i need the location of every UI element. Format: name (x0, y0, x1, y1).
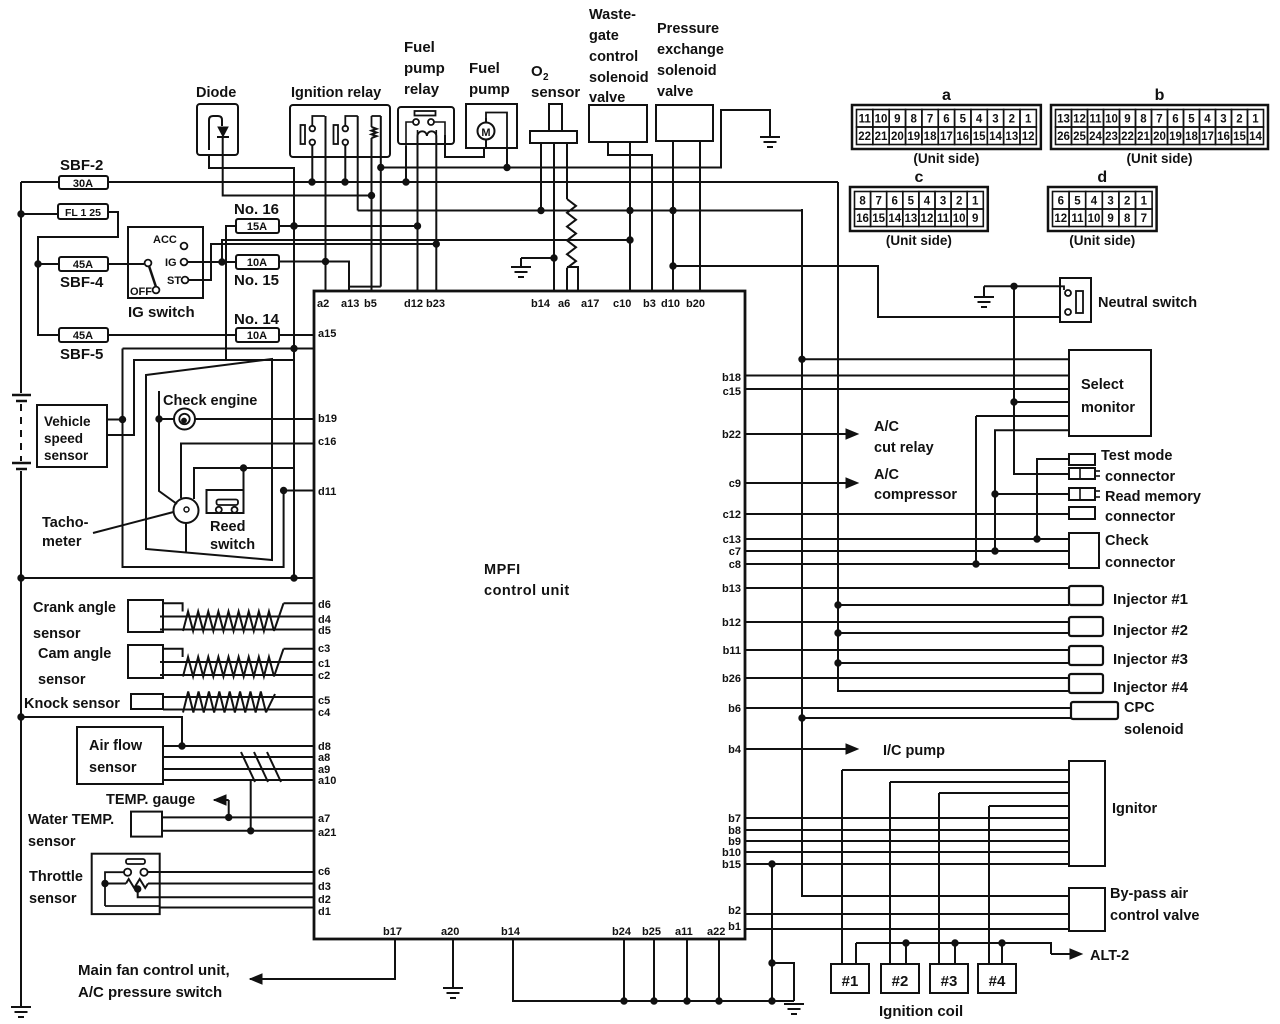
svg-text:3: 3 (1220, 114, 1226, 126)
svg-text:#1: #1 (842, 973, 859, 990)
svg-text:c1: c1 (318, 658, 330, 670)
svg-text:Ignition coil: Ignition coil (879, 1003, 963, 1020)
svg-text:MPFI: MPFI (484, 562, 521, 578)
svg-text:b4: b4 (728, 744, 742, 756)
svg-text:c8: c8 (729, 559, 741, 571)
svg-text:b18: b18 (722, 372, 741, 384)
svg-text:Pressure: Pressure (657, 21, 719, 37)
svg-text:13: 13 (1057, 114, 1070, 126)
svg-text:5: 5 (908, 196, 915, 208)
svg-text:No. 16: No. 16 (234, 201, 279, 218)
svg-text:2: 2 (1124, 196, 1130, 208)
svg-text:b12: b12 (722, 617, 741, 629)
svg-text:Diode: Diode (196, 85, 236, 101)
svg-text:18: 18 (1185, 131, 1198, 143)
svg-text:A/C: A/C (874, 419, 900, 435)
svg-text:a17: a17 (581, 298, 599, 310)
svg-text:d6: d6 (318, 599, 331, 611)
svg-text:sensor: sensor (89, 760, 137, 776)
svg-text:12: 12 (1054, 213, 1067, 225)
svg-text:10A: 10A (247, 257, 267, 269)
svg-text:17: 17 (1201, 131, 1214, 143)
svg-text:A/C pressure switch: A/C pressure switch (78, 984, 222, 1001)
svg-text:a22: a22 (707, 926, 725, 938)
svg-text:c: c (914, 169, 923, 186)
svg-text:b25: b25 (642, 926, 661, 938)
svg-text:11: 11 (1071, 213, 1084, 225)
svg-text:Vehicle: Vehicle (44, 414, 91, 429)
svg-text:12: 12 (1073, 114, 1086, 126)
svg-text:b14: b14 (531, 298, 551, 310)
svg-text:SBF-5: SBF-5 (60, 346, 103, 363)
svg-text:control valve: control valve (1110, 908, 1199, 924)
svg-text:b23: b23 (426, 298, 445, 310)
svg-text:b24: b24 (612, 926, 632, 938)
svg-text:ST: ST (167, 275, 181, 287)
svg-text:b: b (1155, 87, 1165, 104)
svg-text:b14: b14 (501, 926, 521, 938)
svg-text:a2: a2 (317, 298, 329, 310)
svg-text:c3: c3 (318, 643, 330, 655)
svg-text:TEMP. gauge: TEMP. gauge (106, 792, 195, 808)
svg-text:c6: c6 (318, 866, 330, 878)
svg-text:15A: 15A (247, 221, 267, 233)
svg-text:#3: #3 (941, 973, 958, 990)
svg-text:connector: connector (1105, 555, 1175, 571)
svg-text:(Unit side): (Unit side) (913, 151, 979, 166)
svg-text:24: 24 (1089, 131, 1102, 143)
svg-text:sensor: sensor (28, 834, 76, 850)
svg-text:1: 1 (1025, 114, 1032, 126)
svg-text:5: 5 (960, 114, 967, 126)
svg-text:c13: c13 (723, 534, 741, 546)
svg-text:d3: d3 (318, 881, 331, 893)
svg-text:7: 7 (1156, 114, 1162, 126)
svg-text:15: 15 (1233, 131, 1246, 143)
svg-text:c4: c4 (318, 707, 331, 719)
svg-text:3: 3 (1107, 196, 1113, 208)
svg-text:Ignitor: Ignitor (1112, 801, 1157, 817)
svg-text:b1: b1 (728, 921, 741, 933)
svg-text:b10: b10 (722, 847, 741, 859)
svg-text:9: 9 (894, 114, 900, 126)
svg-text:(Unit side): (Unit side) (1127, 151, 1193, 166)
svg-text:a15: a15 (318, 328, 336, 340)
svg-text:b20: b20 (686, 298, 705, 310)
svg-text:17: 17 (940, 131, 953, 143)
svg-text:switch: switch (210, 537, 255, 553)
svg-text:c2: c2 (318, 670, 330, 682)
svg-text:d1: d1 (318, 906, 331, 918)
svg-text:10: 10 (1088, 213, 1101, 225)
svg-text:b22: b22 (722, 429, 741, 441)
svg-text:8: 8 (911, 114, 918, 126)
svg-text:d11: d11 (318, 486, 336, 498)
svg-text:10A: 10A (247, 330, 267, 342)
svg-text:valve: valve (589, 90, 625, 106)
svg-text:b15: b15 (722, 859, 741, 871)
svg-text:Main fan control unit,: Main fan control unit, (78, 962, 230, 979)
svg-text:#2: #2 (892, 973, 909, 990)
svg-text:Throttle: Throttle (29, 869, 83, 885)
svg-text:9: 9 (1107, 213, 1113, 225)
svg-text:solenoid: solenoid (657, 63, 717, 79)
svg-text:CPC: CPC (1124, 700, 1155, 716)
svg-text:b6: b6 (728, 703, 741, 715)
svg-text:Select: Select (1081, 377, 1124, 393)
svg-text:c9: c9 (729, 478, 741, 490)
svg-text:6: 6 (1172, 114, 1178, 126)
svg-text:Fuel: Fuel (404, 39, 435, 56)
svg-text:a7: a7 (318, 813, 330, 825)
svg-text:14: 14 (989, 131, 1002, 143)
svg-text:connector: connector (1105, 469, 1175, 485)
svg-text:21: 21 (1137, 131, 1150, 143)
svg-text:5: 5 (1074, 196, 1081, 208)
svg-text:pump: pump (404, 60, 445, 77)
svg-text:8: 8 (1140, 114, 1147, 126)
svg-text:d10: d10 (661, 298, 680, 310)
svg-text:c16: c16 (318, 436, 336, 448)
svg-text:21: 21 (875, 131, 888, 143)
svg-text:b2: b2 (728, 905, 741, 917)
svg-text:25: 25 (1073, 131, 1086, 143)
svg-text:Water TEMP.: Water TEMP. (28, 812, 114, 828)
svg-text:Injector #2: Injector #2 (1113, 622, 1188, 639)
svg-text:a11: a11 (675, 926, 693, 938)
svg-text:Waste-: Waste- (589, 7, 636, 23)
svg-text:solenoid: solenoid (1124, 722, 1184, 738)
svg-text:5: 5 (1188, 114, 1195, 126)
svg-text:8: 8 (1124, 213, 1131, 225)
svg-text:gate: gate (589, 28, 619, 44)
svg-text:#4: #4 (989, 973, 1006, 990)
svg-text:d12: d12 (404, 298, 423, 310)
svg-text:compressor: compressor (874, 487, 957, 503)
svg-text:monitor: monitor (1081, 400, 1135, 416)
svg-text:IG switch: IG switch (128, 304, 195, 321)
svg-text:control unit: control unit (484, 583, 570, 599)
svg-text:1: 1 (1141, 196, 1148, 208)
svg-text:b13: b13 (722, 583, 741, 595)
svg-text:3: 3 (992, 114, 998, 126)
svg-text:connector: connector (1105, 509, 1175, 525)
svg-text:Injector #3: Injector #3 (1113, 651, 1188, 668)
svg-text:7: 7 (1141, 213, 1147, 225)
svg-text:15: 15 (973, 131, 986, 143)
svg-text:2: 2 (1236, 114, 1242, 126)
svg-text:Check engine: Check engine (163, 393, 257, 409)
svg-text:14: 14 (888, 213, 901, 225)
svg-text:22: 22 (1121, 131, 1134, 143)
svg-text:b11: b11 (723, 645, 741, 657)
svg-text:sensor: sensor (33, 626, 81, 642)
svg-text:11: 11 (1089, 114, 1102, 126)
svg-text:b7: b7 (728, 813, 741, 825)
svg-text:6: 6 (892, 196, 898, 208)
svg-text:c7: c7 (729, 546, 741, 558)
svg-text:10: 10 (953, 213, 966, 225)
svg-text:b3: b3 (643, 298, 656, 310)
svg-text:30A: 30A (73, 178, 93, 190)
svg-text:a10: a10 (318, 775, 336, 787)
svg-text:Read memory: Read memory (1105, 489, 1201, 505)
svg-text:speed: speed (44, 431, 83, 446)
svg-text:4: 4 (976, 114, 983, 126)
svg-text:11: 11 (859, 114, 872, 126)
svg-text:Tacho-: Tacho- (42, 515, 89, 531)
svg-text:Cam angle: Cam angle (38, 646, 111, 662)
svg-text:Crank angle: Crank angle (33, 600, 116, 616)
svg-text:sensor: sensor (29, 891, 77, 907)
svg-text:sensor: sensor (38, 672, 86, 688)
svg-text:FL 1 25: FL 1 25 (65, 207, 101, 219)
svg-text:Test mode: Test mode (1101, 448, 1172, 464)
svg-text:26: 26 (1057, 131, 1070, 143)
svg-text:cut relay: cut relay (874, 440, 934, 456)
svg-text:A/C: A/C (874, 467, 900, 483)
svg-text:13: 13 (1005, 131, 1018, 143)
svg-text:a: a (942, 87, 951, 104)
svg-text:c12: c12 (723, 509, 741, 521)
svg-text:1: 1 (1252, 114, 1259, 126)
svg-text:d5: d5 (318, 625, 331, 637)
svg-text:d2: d2 (318, 894, 331, 906)
svg-text:(Unit side): (Unit side) (1069, 233, 1135, 248)
svg-text:valve: valve (657, 84, 693, 100)
svg-text:22: 22 (858, 131, 871, 143)
svg-text:7: 7 (927, 114, 933, 126)
svg-text:15: 15 (872, 213, 885, 225)
svg-text:a21: a21 (318, 827, 336, 839)
svg-text:4: 4 (924, 196, 931, 208)
svg-text:4: 4 (1204, 114, 1211, 126)
svg-text:19: 19 (907, 131, 920, 143)
svg-text:OFF: OFF (130, 286, 152, 298)
svg-text:10: 10 (1105, 114, 1118, 126)
svg-text:b5: b5 (364, 298, 377, 310)
svg-text:20: 20 (891, 131, 904, 143)
svg-text:SBF-2: SBF-2 (60, 157, 103, 174)
svg-text:Fuel: Fuel (469, 60, 500, 77)
svg-text:b26: b26 (722, 673, 741, 685)
svg-text:2: 2 (1009, 114, 1015, 126)
svg-text:sensor: sensor (531, 84, 580, 101)
svg-text:2: 2 (543, 72, 549, 83)
svg-text:23: 23 (1105, 131, 1118, 143)
svg-text:c5: c5 (318, 695, 330, 707)
svg-text:12: 12 (921, 213, 934, 225)
svg-text:3: 3 (940, 196, 946, 208)
svg-text:4: 4 (1091, 196, 1098, 208)
svg-text:Injector #4: Injector #4 (1113, 679, 1189, 696)
svg-text:11: 11 (937, 213, 950, 225)
svg-text:6: 6 (943, 114, 949, 126)
svg-text:pump: pump (469, 81, 510, 98)
svg-text:b19: b19 (318, 413, 337, 425)
svg-text:a6: a6 (558, 298, 570, 310)
svg-text:9: 9 (1124, 114, 1130, 126)
svg-text:13: 13 (904, 213, 917, 225)
svg-text:Ignition relay: Ignition relay (291, 85, 381, 101)
svg-text:Reed: Reed (210, 519, 245, 535)
svg-text:45A: 45A (73, 259, 93, 271)
svg-text:Neutral switch: Neutral switch (1098, 295, 1197, 311)
svg-text:relay: relay (404, 81, 440, 98)
svg-text:12: 12 (1022, 131, 1035, 143)
svg-text:45A: 45A (73, 330, 93, 342)
svg-text:I/C pump: I/C pump (883, 743, 945, 759)
svg-text:Air flow: Air flow (89, 738, 143, 754)
svg-text:16: 16 (1217, 131, 1230, 143)
svg-text:control: control (589, 49, 638, 65)
svg-text:c10: c10 (613, 298, 631, 310)
svg-text:2: 2 (956, 196, 962, 208)
svg-text:16: 16 (956, 131, 969, 143)
svg-text:ALT-2: ALT-2 (1090, 948, 1129, 964)
svg-text:14: 14 (1249, 131, 1262, 143)
svg-text:Check: Check (1105, 533, 1149, 549)
svg-text:19: 19 (1169, 131, 1182, 143)
svg-text:9: 9 (972, 213, 978, 225)
svg-text:No. 15: No. 15 (234, 272, 279, 289)
svg-text:a8: a8 (318, 752, 330, 764)
svg-text:ACC: ACC (153, 234, 177, 246)
svg-text:IG: IG (165, 257, 177, 269)
svg-text:c15: c15 (723, 386, 741, 398)
svg-text:No. 14: No. 14 (234, 311, 280, 328)
svg-text:a20: a20 (441, 926, 459, 938)
svg-text:Knock sensor: Knock sensor (24, 696, 120, 712)
svg-text:18: 18 (924, 131, 937, 143)
svg-text:20: 20 (1153, 131, 1166, 143)
svg-text:a13: a13 (341, 298, 359, 310)
svg-text:sensor: sensor (44, 448, 89, 463)
svg-text:M: M (481, 127, 490, 139)
svg-text:Injector #1: Injector #1 (1113, 591, 1188, 608)
svg-text:16: 16 (856, 213, 869, 225)
svg-text:By-pass air: By-pass air (1110, 886, 1189, 902)
svg-text:b17: b17 (383, 926, 402, 938)
svg-text:1: 1 (972, 196, 979, 208)
svg-text:meter: meter (42, 534, 82, 550)
svg-text:10: 10 (875, 114, 888, 126)
svg-text:d: d (1097, 169, 1107, 186)
svg-text:7: 7 (875, 196, 881, 208)
svg-text:6: 6 (1058, 196, 1064, 208)
svg-text:exchange: exchange (657, 42, 724, 58)
svg-text:O: O (531, 63, 543, 80)
svg-text:8: 8 (859, 196, 866, 208)
svg-text:solenoid: solenoid (589, 70, 649, 86)
svg-text:SBF-4: SBF-4 (60, 274, 104, 291)
svg-text:(Unit side): (Unit side) (886, 233, 952, 248)
